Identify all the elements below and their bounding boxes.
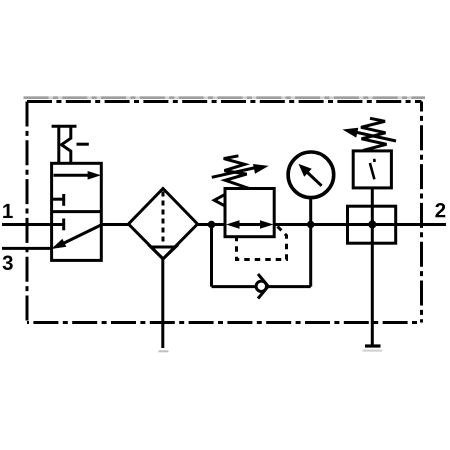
switch contact: [370, 159, 375, 180]
regulator adjustment spring: [224, 156, 250, 189]
valve V1 body (3/2 on-off valve): [52, 163, 102, 260]
wire filter drain line: [161, 259, 164, 348]
gauge needle: [299, 164, 322, 186]
valve blocked port T (top cell): [52, 194, 64, 206]
wire valve to filter: [101, 223, 128, 226]
wire bypass bottom left: [212, 285, 257, 288]
gauge G1: [288, 152, 334, 198]
filter F1 diamond: [129, 189, 198, 260]
pressure switch spring arrow: [343, 128, 397, 141]
wire gauge stem: [309, 198, 312, 225]
wire bypass bottom right: [266, 285, 310, 288]
valve manual slide actuator with detent: [52, 126, 89, 163]
pressure switch spring: [361, 118, 387, 150]
valve top cell flow arrow: [54, 171, 102, 180]
drain end gray mark: [159, 350, 169, 352]
wire port 3 line: [2, 247, 52, 250]
wire regulator to port 2: [274, 223, 446, 226]
wire switch stem: [371, 188, 374, 346]
filter sump triangle: [151, 247, 176, 259]
wire bypass right vertical: [309, 225, 312, 287]
gray artifact line above frame: [24, 96, 426, 99]
node junction dot at gauge stem: [307, 221, 315, 229]
wire bypass left vertical: [210, 225, 213, 287]
wire port 1 line: [2, 223, 64, 226]
regulator relief triangle: [214, 194, 225, 206]
node label 1: [3, 204, 13, 218]
filter dashed element line: [162, 192, 165, 247]
junction box distributor block: [348, 206, 396, 243]
node label 2: [435, 203, 445, 217]
valve blocked port T (bottom cell): [62, 219, 65, 231]
enclosure frame (dash-dot assembly boundary): [27, 102, 422, 323]
check valve: [256, 274, 268, 299]
pressure switch S1 box: [353, 151, 391, 188]
regulator flow double arrow: [226, 220, 274, 229]
wire filter to regulator: [198, 223, 226, 226]
node junction dot left of regulator: [208, 221, 216, 229]
ground terminal bar: [365, 344, 381, 347]
ground gray mark: [363, 350, 383, 352]
node junction dot in distributor block: [368, 221, 376, 229]
regulator R1 body: [225, 189, 274, 237]
regulator pilot dashed line: [237, 227, 287, 260]
node label 3: [3, 255, 13, 270]
valve exhaust diagonal arrow: [51, 225, 101, 249]
regulator spring adjustment arrow: [212, 164, 269, 177]
